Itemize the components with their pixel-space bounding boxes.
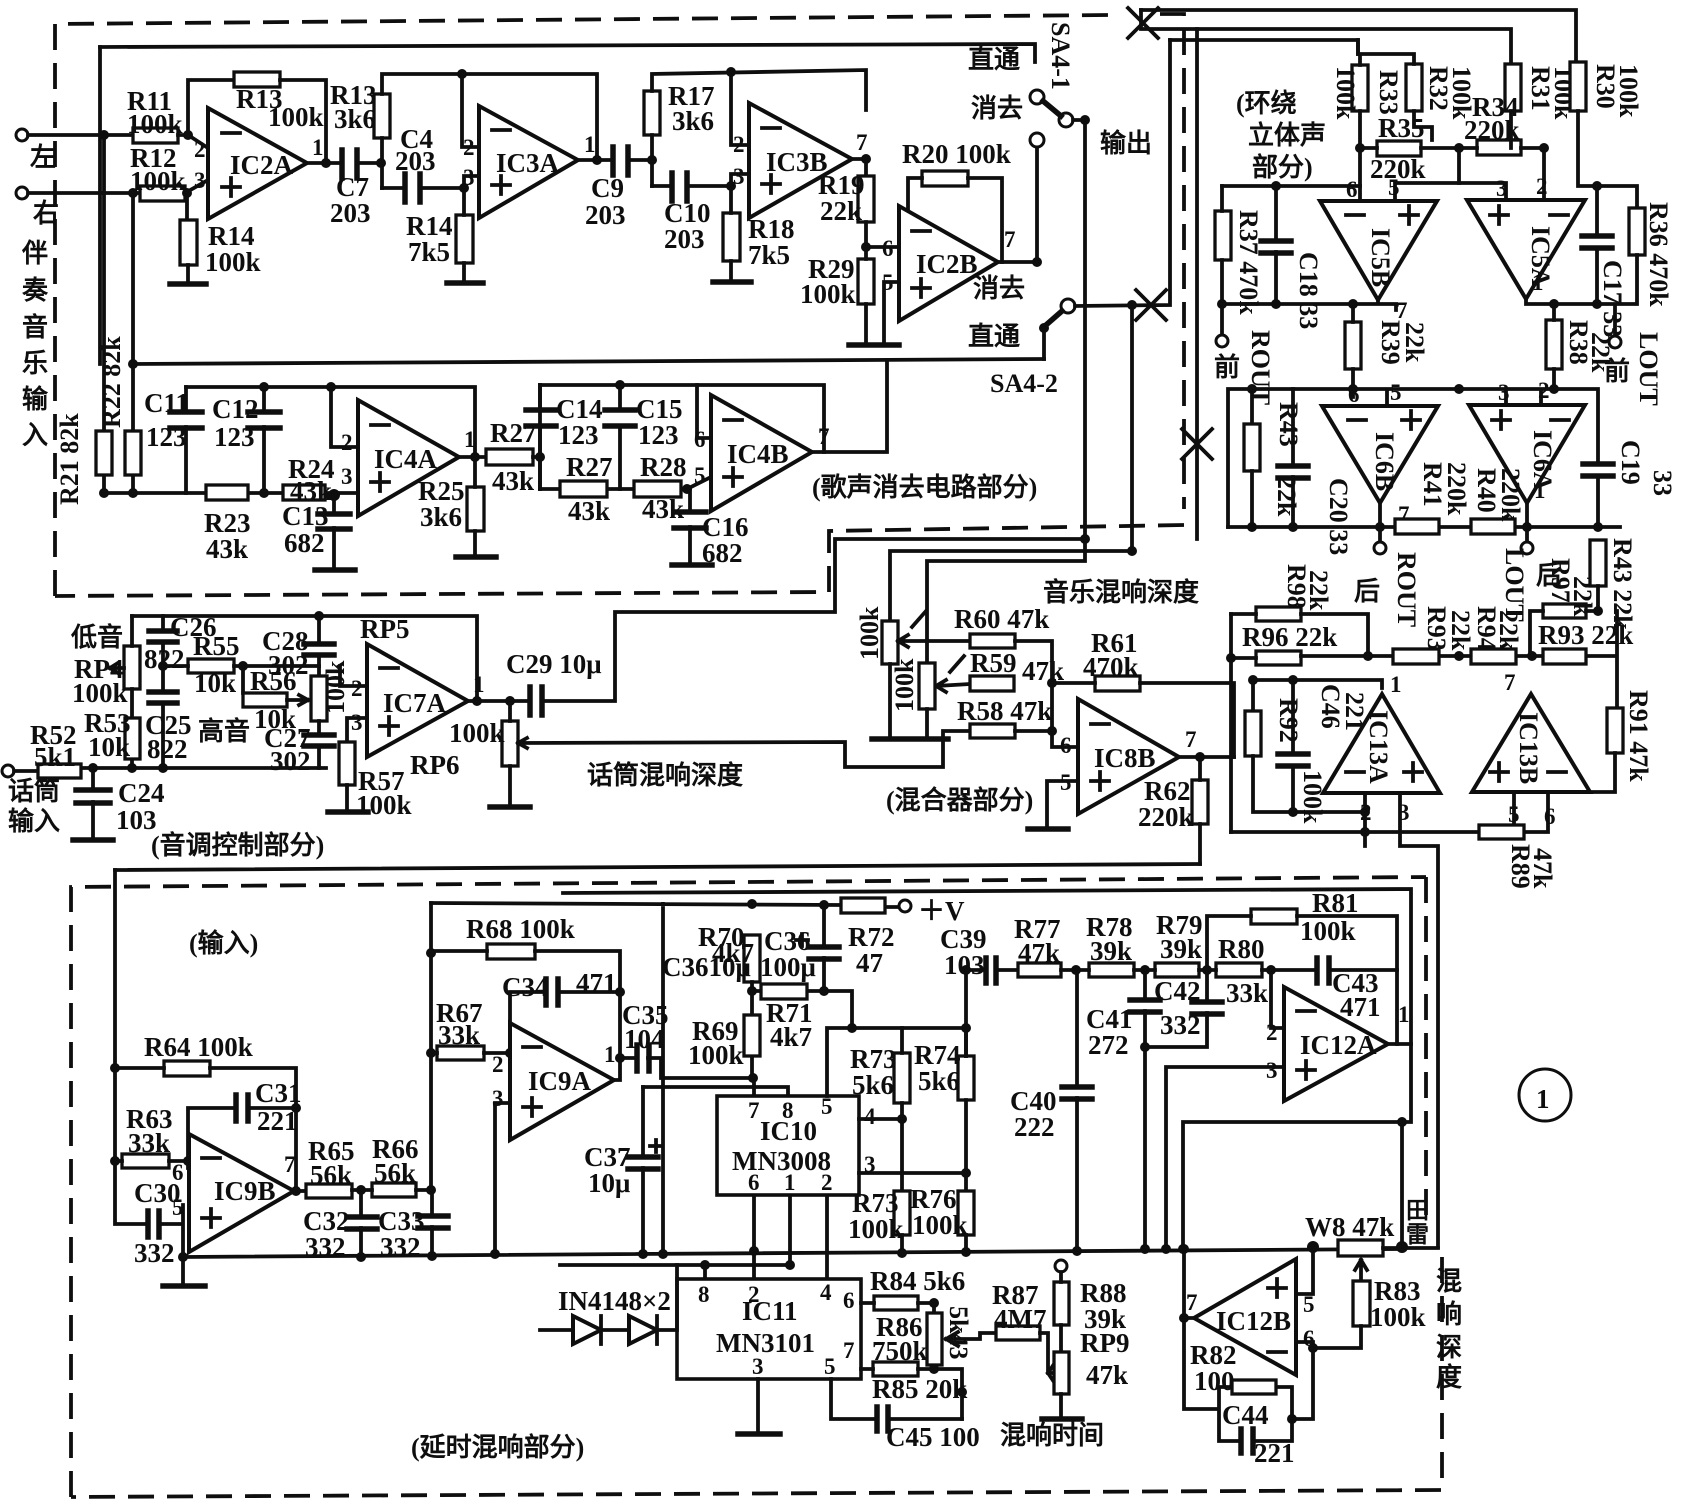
- wire: C10 to pin3: [652, 174, 749, 186]
- capacitor C26 822: [161, 616, 165, 666]
- wire: IC3A feedback top: [382, 74, 597, 188]
- resistor R55 10k: [188, 659, 234, 673]
- wire: tone bottom bus: [81, 766, 326, 770]
- wire: music feed lines to mixer pots: [890, 539, 1132, 663]
- node: mic input terminal: [2, 765, 14, 777]
- wire: C41-C42 link: [1145, 1013, 1207, 1047]
- wire: IC13A pin2 / pin3: [1365, 793, 1438, 1247]
- wire: R98 links: [1231, 614, 1368, 656]
- svg-text:8: 8: [698, 1282, 710, 1307]
- svg-text:低音: 低音: [70, 622, 123, 652]
- svg-text:56k: 56k: [374, 1158, 416, 1188]
- svg-text:3: 3: [1496, 176, 1508, 201]
- capacitor C34 471: [546, 979, 558, 1005]
- svg-text:R43 22k: R43 22k: [1608, 538, 1637, 630]
- svg-text:IN4148×2: IN4148×2: [558, 1286, 671, 1316]
- svg-text:直通: 直通: [968, 45, 1020, 74]
- wire: C39 row: [966, 970, 1018, 1056]
- op-amp IC13B (points up): [1472, 694, 1590, 792]
- svg-text:C18 33: C18 33: [1294, 252, 1323, 329]
- wire: IC5B pin5: [1395, 183, 1459, 201]
- capacitor C44 221: [1241, 1429, 1253, 1453]
- capacitor C33 332: [430, 1190, 434, 1256]
- capacitor C37 10u: [641, 1087, 645, 1254]
- op-amp IC8B: [1078, 699, 1179, 814]
- svg-text:100k: 100k: [205, 247, 261, 277]
- svg-text:47: 47: [856, 948, 883, 978]
- svg-text:输: 输: [22, 384, 49, 414]
- svg-text:220k: 220k: [1442, 462, 1471, 516]
- svg-text:5: 5: [824, 1354, 836, 1379]
- svg-text:(音调控制部分): (音调控制部分): [151, 830, 324, 860]
- wire: RP9 to ground: [1059, 1394, 1063, 1417]
- capacitor C10 203: [672, 173, 687, 201]
- svg-text:100k: 100k: [130, 166, 186, 196]
- svg-text:100k: 100k: [800, 279, 856, 309]
- svg-text:100k: 100k: [449, 718, 505, 748]
- wire: surround feed top lines: [1141, 10, 1576, 62]
- svg-text:5: 5: [1390, 380, 1402, 405]
- svg-text:C11: C11: [144, 388, 189, 418]
- svg-text:100k: 100k: [72, 678, 128, 708]
- svg-text:R85 20k: R85 20k: [872, 1374, 967, 1404]
- op-amp IC12B (points left): [1194, 1259, 1296, 1375]
- node: ROUT front terminal: [1216, 335, 1228, 347]
- svg-text:C29 10μ: C29 10μ: [506, 649, 602, 679]
- resistor R67 33k: [437, 1046, 484, 1060]
- wire: IC10 bottom pins down: [754, 1196, 827, 1279]
- wire: R33/R32 top bus: [1358, 40, 1414, 65]
- svg-text:R28: R28: [640, 452, 687, 482]
- ground under IC9B pin5: [163, 1283, 205, 1289]
- dashed box: voice-cancel section border: [55, 15, 1111, 596]
- wire: W8 right to border cross: [1383, 1246, 1438, 1250]
- svg-text:3: 3: [1498, 380, 1510, 405]
- pot RP6 100k (vertical): [502, 721, 518, 766]
- wire: pot1 wiper arrow: [898, 611, 970, 647]
- svg-text:R33: R33: [1374, 70, 1403, 115]
- resistor R27b 43k: [560, 481, 607, 497]
- wire: R92/C46 bottoms: [1253, 756, 1365, 812]
- resistor R35 220k: [1377, 141, 1421, 156]
- svg-text:302: 302: [270, 746, 311, 776]
- svg-text:C44: C44: [1222, 1400, 1269, 1430]
- wire: IC4A input bus: [104, 491, 358, 495]
- svg-text:混响时间: 混响时间: [1000, 1420, 1104, 1450]
- svg-text:＋V: ＋V: [918, 896, 965, 926]
- svg-text:1: 1: [473, 672, 485, 697]
- svg-text:2: 2: [733, 132, 745, 157]
- wire: IC7A pin3 to R57: [347, 718, 367, 742]
- wire: IC4B input bus: [540, 477, 711, 489]
- svg-text:直通: 直通: [968, 322, 1020, 351]
- node: LOUT front terminal: [1609, 336, 1621, 348]
- svg-text:后: 后: [1354, 577, 1380, 606]
- svg-text:输出: 输出: [1100, 128, 1152, 158]
- wire: IC13 feedback top: [1253, 680, 1382, 753]
- wire: R63 to pin6: [115, 1159, 189, 1163]
- ground under C24: [73, 837, 113, 843]
- svg-text:100k: 100k: [1298, 770, 1327, 824]
- IC10 MN3008: [717, 1096, 859, 1195]
- op-amp IC3B: [749, 103, 852, 218]
- svg-text:1: 1: [1536, 1084, 1550, 1114]
- svg-text:5: 5: [1388, 175, 1400, 200]
- svg-text:(歌声消去电路部分): (歌声消去电路部分): [812, 472, 1037, 502]
- svg-text:左: 左: [30, 143, 56, 172]
- resistor R64 100k: [164, 1061, 210, 1076]
- svg-text:RP5: RP5: [360, 614, 410, 644]
- resistor R19 22k (vertical): [858, 176, 874, 222]
- svg-text:3k6: 3k6: [420, 502, 462, 532]
- resistor R30 100k (vertical): [1570, 62, 1586, 111]
- wire: IC3B pin2 drop: [731, 72, 749, 145]
- svg-text:R55: R55: [193, 631, 240, 661]
- wire: summing column into IC8B pin6: [1015, 641, 1078, 747]
- wire: 5k43 wiper to R87: [946, 1332, 996, 1346]
- wire: IC5B out bus: [1222, 300, 1396, 310]
- svg-text:104: 104: [624, 1024, 665, 1054]
- resistor R43b 22k (vertical): [1590, 540, 1606, 586]
- svg-text:R58 47k: R58 47k: [957, 696, 1052, 726]
- svg-text:度: 度: [1436, 1362, 1462, 1392]
- node: right input terminal: [16, 187, 28, 199]
- svg-text:6: 6: [882, 236, 894, 261]
- wire: IC6 input bus: [1228, 389, 1598, 527]
- svg-text:IC12A: IC12A: [1300, 1030, 1377, 1060]
- svg-text:IC12B: IC12B: [1216, 1306, 1291, 1336]
- wire: IC10 pin5 up to bias row: [827, 1028, 966, 1096]
- svg-text:3: 3: [1266, 1058, 1278, 1083]
- ground under R14': [462, 188, 466, 281]
- svg-text:R37 470k: R37 470k: [1234, 210, 1263, 315]
- svg-text:4: 4: [864, 1104, 876, 1129]
- svg-text:7: 7: [843, 1338, 855, 1363]
- svg-text:(输入): (输入): [189, 928, 258, 958]
- wire: mid feedback bus y=656: [1301, 611, 1617, 708]
- wire: pin2 drop: [462, 74, 479, 147]
- resistor R32 100k (vertical): [1406, 64, 1422, 111]
- svg-text:203: 203: [395, 146, 436, 176]
- wire: R87 to RP9 wiper: [1040, 1333, 1054, 1382]
- op-amp IC5B (points down): [1320, 201, 1437, 300]
- svg-text:右: 右: [33, 199, 59, 228]
- wire: R96 left column down: [1231, 614, 1256, 832]
- svg-text:1: 1: [464, 427, 476, 452]
- wire: left input: [28, 133, 133, 137]
- wire: IC12A return rail: [563, 889, 1411, 1044]
- svg-text:39k: 39k: [1160, 934, 1202, 964]
- resistor R82 100: [1232, 1380, 1276, 1394]
- svg-text:100: 100: [1194, 1366, 1235, 1396]
- switch SA4-1: [1030, 90, 1044, 104]
- wire: lower bus to R89: [1231, 792, 1548, 832]
- svg-text:R35: R35: [1378, 113, 1425, 143]
- diode D2: [629, 1316, 657, 1344]
- svg-text:(环绕: (环绕: [1236, 88, 1297, 118]
- wire: R97/R43b links: [1530, 586, 1598, 656]
- svg-text:47k: 47k: [1018, 938, 1060, 968]
- svg-text:33: 33: [1648, 470, 1677, 496]
- svg-text:5: 5: [1303, 1292, 1315, 1317]
- svg-text:音: 音: [22, 312, 48, 342]
- resistor R92 100k (vertical): [1245, 711, 1261, 756]
- resistor R56 10k: [243, 693, 287, 707]
- pot W8 47k: [1338, 1240, 1383, 1256]
- resistor R37 470k (vertical): [1215, 211, 1231, 260]
- svg-text:7: 7: [748, 1098, 760, 1123]
- wire: IC4B feedback: [540, 385, 824, 452]
- svg-text:2: 2: [194, 137, 206, 162]
- svg-text:221: 221: [1254, 1438, 1295, 1468]
- svg-text:1: 1: [1398, 1002, 1410, 1027]
- resistor R41 220k: [1395, 519, 1439, 534]
- resistor R65 56k: [306, 1184, 352, 1198]
- svg-text:R20 100k: R20 100k: [902, 139, 1011, 169]
- svg-text:302: 302: [268, 650, 309, 680]
- capacitor C39 103: [986, 958, 996, 983]
- svg-text:39k: 39k: [1090, 936, 1132, 966]
- svg-text:2: 2: [1538, 378, 1550, 403]
- capacitor C28 302: [317, 616, 321, 676]
- op-amp IC12A: [1284, 987, 1388, 1101]
- capacitor C30 332: [148, 1211, 159, 1237]
- wire: pot2 wiper arrow: [936, 656, 970, 692]
- pot RP5 100k (vertical): [311, 676, 327, 721]
- wire: R91 bottom to IC13B: [1590, 753, 1615, 792]
- svg-text:1: 1: [784, 1170, 796, 1195]
- op-amp IC4A: [358, 400, 459, 516]
- svg-text:100μ: 100μ: [760, 952, 816, 982]
- svg-text:3: 3: [733, 164, 745, 189]
- wire: R55 to R56/RP5: [163, 666, 319, 693]
- svg-text:R68 100k: R68 100k: [466, 914, 575, 944]
- svg-text:100k: 100k: [127, 109, 183, 139]
- ground under R57: [345, 785, 349, 810]
- svg-text:R92: R92: [1274, 698, 1303, 743]
- resistor R61 470k: [1095, 676, 1140, 691]
- svg-text:123: 123: [558, 420, 599, 450]
- capacitor C27 302: [317, 721, 321, 768]
- resistor R53 10k (vertical): [125, 718, 140, 759]
- svg-text:7k5: 7k5: [408, 237, 450, 267]
- wire: SA4-2 branch down to mixer: [1130, 305, 1134, 551]
- capacitor C45 100: [831, 1379, 962, 1419]
- resistor R81 100k: [1251, 909, 1297, 924]
- svg-text:C13: C13: [282, 501, 329, 531]
- wire: diode chain: [540, 1265, 677, 1330]
- svg-text:822: 822: [147, 734, 188, 764]
- svg-text:222: 222: [1014, 1112, 1055, 1142]
- svg-text:6: 6: [172, 1160, 184, 1185]
- svg-text:输入: 输入: [8, 806, 60, 836]
- wire: IC12A pin3: [1166, 1067, 1284, 1249]
- ground under C16: [672, 562, 712, 568]
- svg-text:IC3A: IC3A: [496, 148, 560, 178]
- wire: IC9A pin3 to bus: [495, 1103, 510, 1254]
- resistor R38 22k (vertical): [1546, 320, 1562, 369]
- svg-text:7: 7: [1504, 670, 1516, 695]
- svg-text:伴: 伴: [21, 239, 48, 268]
- svg-text:R59: R59: [970, 648, 1017, 678]
- svg-text:6: 6: [1060, 733, 1072, 758]
- svg-text:C24: C24: [118, 778, 165, 808]
- svg-text:471: 471: [1340, 992, 1381, 1022]
- wire: R27 to IC4B cluster: [533, 385, 540, 489]
- wire: R13 right to output: [280, 80, 326, 163]
- svg-text:IC13B: IC13B: [1514, 712, 1543, 784]
- svg-text:6: 6: [1346, 177, 1358, 202]
- resistor R84 5k6: [874, 1296, 918, 1310]
- wire: R70/R69 column and R71 row: [752, 982, 852, 1078]
- wire: IC10 pin7 drop: [752, 1078, 756, 1096]
- wire: R37 column to ROUT front: [1220, 186, 1224, 334]
- capacitor C29 10u: [530, 687, 542, 715]
- svg-text:3: 3: [341, 464, 353, 489]
- wire: tone top feedback bus: [132, 616, 477, 701]
- resistor R93 22k: [1543, 649, 1586, 664]
- wire: out node: [470, 452, 480, 462]
- wire: IC4B out up to bus: [812, 360, 887, 452]
- capacitor C41 272: [1143, 970, 1147, 1249]
- wire: R65-R66 link: [352, 1188, 431, 1192]
- svg-text:R81: R81: [1312, 888, 1359, 918]
- svg-text:100k: 100k: [1331, 66, 1360, 120]
- svg-text:10k: 10k: [88, 732, 130, 762]
- svg-text:R84 5k6: R84 5k6: [870, 1266, 965, 1296]
- capacitor C20 33: [1291, 389, 1295, 527]
- wire: IC8B pin5 to ground: [1047, 781, 1078, 826]
- wire: IC11 pin8 row: [560, 1265, 790, 1279]
- resistor R60 47k: [970, 634, 1015, 648]
- resistor R98 22k: [1256, 607, 1301, 621]
- svg-text:43k: 43k: [642, 494, 684, 524]
- svg-text:7: 7: [1185, 727, 1197, 752]
- resistor R66 56k: [372, 1183, 416, 1197]
- wire: R30 bottom to C17/R36: [1578, 111, 1637, 235]
- wire: IC12A output loop down to W8: [1183, 1044, 1411, 1249]
- svg-text:3: 3: [752, 1354, 764, 1379]
- wire: IC10 pin3 to R74/R76 column: [859, 1100, 966, 1191]
- svg-text:C20 33: C20 33: [1324, 478, 1353, 555]
- wire: R56 wiper arrow into RP5: [287, 695, 308, 705]
- svg-text:C19: C19: [1616, 440, 1645, 485]
- svg-text:3: 3: [351, 710, 363, 735]
- svg-text:43k: 43k: [568, 496, 610, 526]
- svg-text:RP6: RP6: [410, 750, 460, 780]
- svg-text:乐: 乐: [22, 349, 48, 378]
- op-amp IC6B (points down): [1322, 406, 1438, 503]
- svg-text:R64 100k: R64 100k: [144, 1032, 253, 1062]
- svg-text:IC6B: IC6B: [1370, 432, 1399, 491]
- resistor R74 5k6 (vertical): [958, 1056, 974, 1100]
- wire: left input columns down: [104, 135, 133, 493]
- capacitor C4 203: [405, 174, 420, 202]
- svg-text:750k: 750k: [872, 1336, 928, 1366]
- svg-text:43k: 43k: [492, 466, 534, 496]
- resistor R40 220k: [1471, 519, 1515, 534]
- svg-text:10μ: 10μ: [588, 1168, 630, 1198]
- svg-text:(混合器部分): (混合器部分): [886, 785, 1033, 815]
- svg-text:100k: 100k: [1370, 1302, 1426, 1332]
- capacitor C9 203: [613, 147, 628, 175]
- svg-text:7: 7: [284, 1152, 296, 1177]
- resistor R77 47k: [1018, 963, 1061, 977]
- svg-text:2: 2: [463, 135, 475, 160]
- wire: RP6 wiper to mic depth bus: [518, 731, 970, 767]
- svg-text:C42: C42: [1154, 976, 1201, 1006]
- wire: IC9B out: [294, 1189, 306, 1193]
- svg-text:220k: 220k: [1496, 468, 1525, 522]
- svg-text:消去: 消去: [973, 274, 1025, 303]
- svg-text:ROUT: ROUT: [1392, 552, 1421, 627]
- resistor R62 220k (vertical): [1192, 780, 1208, 824]
- resistor R12: [140, 186, 185, 201]
- svg-text:22k: 22k: [1586, 332, 1615, 373]
- ground under R14: [186, 265, 190, 282]
- svg-text:22k: 22k: [1400, 322, 1429, 363]
- op-amp IC3A: [479, 106, 578, 218]
- resistor R13 (100k feedback): [234, 72, 280, 87]
- svg-text:SA4-2: SA4-2: [990, 369, 1058, 398]
- svg-text:IC4B: IC4B: [727, 439, 789, 469]
- svg-text:混: 混: [1436, 1267, 1462, 1296]
- svg-text:6: 6: [694, 427, 706, 452]
- svg-text:2: 2: [341, 430, 353, 455]
- wire: C7 to IC3A network: [357, 161, 381, 165]
- svg-text:SA4-1: SA4-1: [1046, 22, 1075, 90]
- resistor R52 5k1: [38, 764, 81, 778]
- svg-text:IC8B: IC8B: [1094, 743, 1156, 773]
- resistor R34 220k: [1477, 140, 1521, 155]
- svg-text:3: 3: [194, 168, 206, 193]
- wire: R32 bottom jog: [1414, 111, 1432, 140]
- capacitor C46 221: [1278, 754, 1308, 766]
- svg-text:前: 前: [1214, 352, 1240, 382]
- svg-text:22k: 22k: [820, 196, 862, 226]
- svg-text:R43: R43: [1274, 402, 1303, 447]
- svg-text:IC2A: IC2A: [230, 150, 294, 180]
- wire: R64 feedback to output column: [115, 1068, 296, 1191]
- resistor R71 4k7: [761, 984, 807, 999]
- wire: IC8B out: [1179, 755, 1234, 759]
- svg-text:7: 7: [1004, 227, 1016, 252]
- resistor R75 100k (vertical): [894, 1191, 910, 1235]
- wire: IC2A out to C7: [307, 161, 341, 165]
- pot: music depth 2 100k (vertical): [919, 663, 935, 709]
- wire: R84 row: [861, 1303, 934, 1313]
- wire: IC12B output to R82/C44 loop: [1184, 1249, 1292, 1441]
- resistor R20 100k (feedback): [922, 171, 968, 186]
- resistor R76 100k (vertical): [958, 1191, 974, 1235]
- wire: IC3B out right and down to R19: [852, 159, 866, 176]
- wire: IC4B pin6: [697, 385, 711, 438]
- svg-text:雷: 雷: [1406, 1222, 1429, 1247]
- wire: R61 feedback: [1052, 683, 1234, 757]
- pot RP4 100k (vertical): [124, 646, 140, 689]
- resistor R83 100k (vertical): [1353, 1281, 1370, 1326]
- svg-text:33k: 33k: [1226, 978, 1268, 1008]
- wire: IC13B pin5 drop: [1512, 792, 1516, 832]
- wire: IC10 pin8 line: [643, 1087, 788, 1096]
- svg-text:5: 5: [694, 463, 706, 488]
- svg-text:10k: 10k: [194, 668, 236, 698]
- wire: filter row: [1061, 968, 1397, 972]
- svg-text:2: 2: [351, 676, 363, 701]
- svg-text:1: 1: [584, 132, 596, 157]
- svg-text:R36 470k: R36 470k: [1644, 202, 1673, 307]
- svg-text:100k: 100k: [890, 658, 919, 712]
